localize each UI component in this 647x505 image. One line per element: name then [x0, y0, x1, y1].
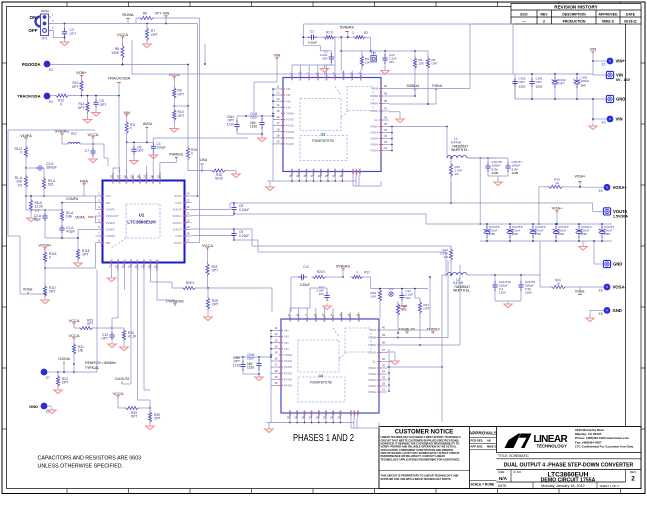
svg-text:UNLESS OTHERWISE SPECIFIED.: UNLESS OTHERWISE SPECIFIED.	[38, 464, 124, 470]
svg-text:GND: GND	[613, 262, 622, 267]
wire	[353, 177, 381, 187]
title block	[379, 427, 641, 489]
svg-text:VOSA-: VOSA-	[613, 285, 627, 290]
wire	[539, 241, 541, 287]
svg-text:TRK/SS2: TRK/SS2	[116, 258, 120, 270]
wire	[174, 105, 189, 107]
svg-text:ON: ON	[30, 15, 38, 20]
svg-text:OPT: OPT	[212, 269, 219, 273]
svg-text:OPT: OPT	[70, 32, 77, 36]
svg-text:VIN: VIN	[284, 335, 289, 339]
capacitor C3-A	[26, 162, 57, 178]
connector J5	[593, 208, 629, 219]
svg-text:10k: 10k	[78, 349, 84, 353]
wire	[290, 288, 333, 312]
svg-text:TRACK/SSA: TRACK/SSA	[17, 94, 40, 99]
wire VOUTA	[467, 158, 508, 225]
node VOSA+	[38, 242, 52, 250]
resistor R11	[125, 117, 136, 143]
svg-text:2: 2	[631, 476, 635, 483]
wire rail B2	[192, 235, 447, 277]
svg-text:LTC3860EUH: LTC3860EUH	[127, 220, 156, 225]
svg-text:R1 0: R1 0	[326, 31, 333, 35]
svg-text:VSWH: VSWH	[368, 366, 376, 370]
wire PGOODA	[51, 64, 189, 106]
svg-text:6V - 14V: 6V - 14V	[616, 78, 631, 82]
resistor R8-A	[27, 196, 44, 222]
svg-text:DISB#: DISB#	[368, 336, 376, 340]
svg-text:CAPACITORS AND RESISTORS ARE 0: CAPACITORS AND RESISTORS ARE 0603	[38, 456, 142, 462]
svg-text:DEMO CIRCUIT 1755A: DEMO CIRCUIT 1755A	[541, 478, 596, 484]
svg-text:FB2: FB2	[106, 241, 111, 245]
svg-text:Monday, January 16, 2012: Monday, January 16, 2012	[541, 484, 584, 488]
resistor R35	[146, 408, 161, 430]
svg-text:16V: 16V	[389, 60, 394, 64]
svg-text:PHSMD: PHSMD	[142, 259, 146, 269]
capacitor C8	[231, 203, 249, 214]
svg-text:N/A: N/A	[499, 476, 508, 481]
svg-text:PCB DES.: PCB DES.	[471, 439, 484, 443]
svg-text:1%: 1%	[35, 208, 40, 212]
svg-text:VIN: VIN	[284, 329, 289, 333]
svg-text:VSWH: VSWH	[368, 390, 376, 394]
power stage U3 FDMF6707B	[273, 70, 389, 178]
svg-text:PGND: PGND	[338, 410, 342, 418]
svg-text:OPT: OPT	[137, 149, 144, 153]
svg-text:OPT: OPT	[155, 12, 162, 16]
svg-text:10: 10	[556, 282, 560, 286]
wire VIN top	[254, 52, 280, 116]
svg-text:VIN: VIN	[284, 341, 289, 345]
svg-text:E4: E4	[49, 100, 53, 104]
svg-text:R20 0: R20 0	[317, 270, 326, 274]
svg-text:DATE:: DATE:	[498, 484, 507, 488]
node VIN right	[590, 46, 597, 75]
node ILINA	[199, 158, 208, 172]
svg-text:VIN: VIN	[284, 347, 289, 351]
node VOSA-	[20, 288, 46, 295]
wire rail A2	[192, 213, 427, 216]
svg-text:DISBL#1: DISBL#1	[407, 84, 420, 88]
wire U4 bottom bus	[265, 415, 354, 433]
svg-text:IL2M: IL2M	[176, 234, 183, 238]
capacitor C4	[149, 142, 165, 159]
svg-text:PWMEN2: PWMEN2	[155, 258, 159, 270]
svg-text:SNS2P: SNS2P	[173, 227, 182, 231]
capacitors COUT9 COUT10	[480, 274, 540, 307]
connector E8	[586, 307, 622, 322]
node COMPA	[61, 197, 95, 211]
node 5VBIAS	[340, 25, 354, 39]
svg-text:OPT: OPT	[212, 303, 219, 307]
inductor L1	[447, 137, 497, 159]
svg-text:E3: E3	[49, 68, 53, 72]
svg-text:VSWH: VSWH	[370, 143, 378, 147]
svg-text:3300pF: 3300pF	[46, 166, 57, 170]
svg-text:1210: 1210	[227, 122, 234, 126]
svg-text:VCCA: VCCA	[112, 391, 123, 396]
svg-text:1%: 1%	[444, 255, 449, 259]
svg-text:2.5V: 2.5V	[535, 232, 541, 236]
svg-text:VIN: VIN	[616, 117, 623, 122]
svg-text:16V: 16V	[581, 83, 587, 87]
resistor R3-A	[42, 176, 56, 197]
svg-text:10K: 10K	[371, 295, 376, 299]
svg-text:APPROVED: APPROVED	[598, 12, 618, 16]
svg-text:GH: GH	[307, 76, 311, 80]
svg-text:2: 2	[543, 19, 545, 23]
address block	[575, 428, 633, 449]
op-amp U1 LTC3860EUH	[96, 172, 192, 271]
svg-text:E6: E6	[599, 289, 603, 293]
connector E4 TRACKSSA	[17, 93, 53, 104]
svg-text:100pF: 100pF	[157, 146, 166, 150]
input capacitors CIN1 CIN2	[512, 73, 606, 100]
wire	[389, 103, 436, 105]
svg-text:DUAL OUTPUT 4 -PHASE STEP-DOWN: DUAL OUTPUT 4 -PHASE STEP-DOWN CONVERTER	[504, 462, 634, 468]
svg-text:5VBIAS: 5VBIAS	[340, 25, 354, 30]
svg-text:OPT: OPT	[178, 114, 185, 118]
svg-text:VIN: VIN	[616, 73, 623, 78]
svg-text:VSNEP: VSNEP	[106, 227, 115, 231]
svg-text:2.5V: 2.5V	[489, 232, 495, 236]
svg-text:PWMEN2: PWMEN2	[166, 298, 184, 303]
svg-text:68pF: 68pF	[34, 218, 41, 222]
capacitor C5	[92, 95, 106, 116]
svg-text:PGND: PGND	[297, 168, 301, 176]
resistor R3	[360, 54, 370, 70]
resistor R34	[118, 398, 151, 419]
svg-text:VCCA: VCCA	[87, 132, 98, 137]
svg-text:1: 1	[356, 271, 358, 275]
svg-text:GND: GND	[616, 97, 625, 102]
wire rail A1	[192, 202, 593, 211]
capacitor C11	[310, 285, 331, 310]
resistor R7	[143, 24, 158, 48]
svg-text:VCCA: VCCA	[202, 243, 213, 248]
svg-text:FSWITCH = 500kHz: FSWITCH = 500kHz	[85, 361, 116, 365]
svg-text:VSWH: VSWH	[370, 131, 378, 135]
resistor R4	[413, 51, 423, 96]
resistor R116	[43, 250, 56, 269]
svg-text:1210: 1210	[519, 84, 526, 88]
svg-text:VSWH: VSWH	[284, 353, 292, 357]
svg-text:2.5V: 2.5V	[512, 232, 518, 236]
wire left border loop	[8, 236, 20, 294]
svg-text:OPT: OPT	[49, 290, 56, 294]
svg-text:R17: R17	[71, 132, 77, 136]
inductor R17	[68, 132, 94, 145]
svg-text:IC NO.: IC NO.	[513, 470, 522, 474]
svg-text:IL1M: IL1M	[176, 201, 183, 205]
svg-text:E5: E5	[599, 189, 603, 193]
resistor R19	[538, 178, 604, 225]
svg-text:COND: COND	[370, 109, 378, 113]
svg-text:R2: R2	[364, 31, 368, 35]
svg-text:PGND: PGND	[284, 359, 292, 363]
svg-text:VIN: VIN	[590, 46, 597, 51]
wire VSWH A	[389, 126, 448, 158]
svg-text:0: 0	[130, 127, 132, 131]
wire	[426, 182, 451, 224]
svg-text:CLKOUT: CLKOUT	[136, 259, 140, 270]
svg-text:VSNSOUT: VSNSOUT	[106, 214, 119, 218]
wire vin feed	[513, 24, 515, 74]
svg-text:10K: 10K	[365, 61, 370, 65]
svg-text:FREQ: FREQ	[123, 259, 127, 266]
svg-text:RUN2: RUN2	[174, 241, 182, 245]
revision history table	[511, 4, 641, 25]
wire	[93, 144, 108, 166]
resistor R13	[170, 106, 184, 132]
output capacitor bank COUT1-6	[426, 223, 615, 250]
svg-text:TECHNOLOGY: TECHNOLOGY	[537, 444, 567, 449]
resistor R24	[370, 288, 381, 318]
svg-text:PGND: PGND	[284, 377, 292, 381]
svg-text:VSWH: VSWH	[370, 149, 378, 153]
Linear Technology logo	[505, 434, 569, 449]
node DISBL#2	[397, 326, 416, 334]
svg-text:GND: GND	[29, 404, 38, 409]
capacitor C13	[101, 328, 116, 348]
wire	[389, 24, 470, 89]
wire RUN2	[166, 18, 200, 243]
node VOSA+r	[574, 175, 585, 188]
svg-text:16V: 16V	[406, 296, 411, 300]
svg-text:50.2k: 50.2k	[215, 177, 223, 181]
svg-text:PGND: PGND	[286, 130, 294, 134]
svg-text:2.5V: 2.5V	[581, 232, 587, 236]
resistor R8	[111, 39, 124, 65]
resistor R28	[204, 288, 219, 321]
svg-text:10K: 10K	[419, 62, 424, 66]
resistor R26	[396, 301, 407, 333]
wire FB node	[26, 195, 84, 197]
connector E2	[589, 99, 623, 130]
svg-text:2.5V: 2.5V	[558, 232, 564, 236]
testpoint TP2	[388, 287, 394, 296]
capacitor C7	[85, 148, 97, 163]
svg-text:OPT: OPT	[101, 337, 108, 341]
svg-text:OPT: OPT	[432, 62, 438, 66]
svg-text:APP ENG.: APP ENG.	[471, 445, 484, 449]
svg-text:PGND: PGND	[319, 168, 323, 176]
node PWMEN1	[160, 153, 184, 174]
svg-text:SMOD#: SMOD#	[340, 312, 344, 322]
svg-text:VIN: VIN	[286, 99, 291, 103]
svg-text:0.22uF: 0.22uF	[300, 283, 310, 287]
node VCCA3	[112, 391, 123, 398]
wire	[625, 24, 627, 426]
node FBA	[80, 178, 95, 202]
svg-text:1210: 1210	[536, 84, 543, 88]
wire U3 bottom bus	[266, 178, 356, 191]
capacitor C2-A	[34, 209, 48, 238]
resistor R31	[72, 340, 84, 365]
svg-text:PGND: PGND	[310, 410, 314, 418]
svg-text:E7: E7	[46, 376, 50, 380]
svg-text:DISBL#2: DISBL#2	[399, 326, 416, 331]
svg-text:PGND: PGND	[284, 371, 292, 375]
svg-text:CLKINA: CLKINA	[58, 357, 70, 361]
resistor R23	[206, 250, 218, 288]
resistor R1	[323, 31, 355, 39]
svg-text:PGND: PGND	[284, 365, 292, 369]
svg-text:0.22uF: 0.22uF	[239, 208, 249, 212]
connector E9 GND	[29, 403, 56, 414]
svg-text:22uF: 22uF	[247, 357, 254, 361]
svg-text:0: 0	[60, 102, 62, 106]
svg-text:PWMEN1: PWMEN1	[158, 172, 162, 184]
capacitors COUT7 COUT8	[479, 157, 522, 185]
svg-text:E8: E8	[599, 312, 603, 316]
svg-text:VDRV: VDRV	[288, 314, 292, 322]
svg-text:PWM: PWM	[369, 328, 376, 332]
svg-text:WURTH EL.: WURTH EL.	[453, 289, 471, 293]
svg-text:THWN: THWN	[370, 102, 378, 106]
note text	[38, 456, 142, 470]
svg-text:PGND: PGND	[312, 168, 316, 176]
wire PHSMD	[138, 270, 151, 409]
wire 5vbias railB	[371, 288, 428, 290]
svg-text:PGND: PGND	[333, 168, 337, 176]
svg-text:SGND: SGND	[131, 176, 135, 184]
node VCCA u1	[87, 132, 98, 148]
svg-text:PGND: PGND	[304, 168, 308, 176]
svg-text:ECO: ECO	[520, 12, 528, 16]
svg-text:VSWH: VSWH	[368, 378, 376, 382]
svg-text:R17: R17	[364, 271, 370, 275]
svg-text:PGND: PGND	[286, 142, 294, 146]
resistor R29	[74, 319, 113, 330]
node 5VBIAS B	[336, 263, 350, 278]
wire pin3	[95, 203, 97, 210]
connector E7	[41, 369, 59, 380]
svg-text:PGND: PGND	[290, 168, 294, 176]
svg-text:GND: GND	[110, 259, 114, 265]
svg-text:OPT: OPT	[78, 106, 85, 110]
resistor R15	[449, 158, 462, 203]
svg-text:1210: 1210	[247, 366, 254, 370]
wire	[49, 31, 65, 38]
svg-text:DATE: DATE	[626, 12, 636, 16]
svg-text:PGND: PGND	[324, 410, 328, 418]
svg-text:PGND: PGND	[357, 314, 361, 322]
svg-text:0: 0	[20, 151, 22, 155]
wire	[387, 265, 460, 346]
node VCCA2	[68, 333, 79, 340]
svg-text:SHEET 1 OF 3: SHEET 1 OF 3	[600, 484, 620, 488]
svg-text:WURTH EL.: WURTH EL.	[451, 148, 469, 152]
wire U4 VIN bus	[270, 330, 273, 415]
svg-text:E1: E1	[602, 63, 606, 67]
svg-text:5VBIAS: 5VBIAS	[55, 128, 69, 133]
svg-text:VSWH: VSWH	[368, 384, 376, 388]
svg-text:OPT: OPT	[100, 103, 107, 107]
svg-text:CUSTOMER NOTICE: CUSTOMER NOTICE	[395, 430, 454, 436]
capacitor C14	[381, 51, 397, 74]
node VCCA4	[202, 243, 213, 250]
svg-text:TYPICAL: TYPICAL	[85, 366, 99, 370]
wire big left loop	[8, 130, 95, 236]
svg-text:OPT: OPT	[131, 415, 138, 419]
svg-text:FDMF6707B: FDMF6707B	[310, 381, 332, 385]
capacitor C6	[130, 141, 144, 164]
wire VRNG1	[119, 167, 121, 174]
svg-text:473pF: 473pF	[66, 230, 75, 234]
svg-text:TRK/SS1: TRK/SS1	[111, 172, 115, 184]
svg-text:PWMEN1: PWMEN1	[169, 153, 183, 157]
svg-text:FBA: FBA	[80, 178, 88, 183]
svg-text:TP2: TP2	[388, 287, 394, 291]
svg-text:VOUTA: VOUTA	[613, 209, 627, 214]
svg-text:VOB+: VOB+	[76, 70, 87, 75]
wire rail74	[132, 40, 513, 74]
connector J1	[593, 71, 631, 82]
svg-text:DESCRIPTION: DESCRIPTION	[562, 12, 586, 16]
wire u1 top long1	[146, 166, 148, 174]
svg-text:5VBIAS: 5VBIAS	[336, 263, 350, 268]
svg-text:1206: 1206	[499, 291, 506, 295]
wire	[127, 142, 154, 173]
wire TRKSS1	[113, 168, 118, 174]
svg-text:VIN: VIN	[123, 110, 130, 115]
resistor R32	[54, 372, 69, 394]
svg-text:SNS1P: SNS1P	[173, 207, 182, 211]
wire top runb	[470, 23, 513, 25]
connector J4	[593, 240, 622, 268]
svg-text:PWM: PWM	[371, 87, 378, 91]
svg-text:VCIN: VCIN	[333, 74, 337, 80]
svg-text:PGND: PGND	[284, 384, 292, 388]
svg-text:IAVGA: IAVGA	[143, 122, 153, 126]
resistor R1-A	[15, 168, 28, 197]
svg-text:OPT: OPT	[151, 33, 158, 37]
svg-text:VIN: VIN	[286, 87, 291, 91]
svg-text:VRNG1: VRNG1	[118, 174, 122, 184]
node VDIFA2	[75, 215, 95, 222]
connector E6	[565, 284, 626, 293]
svg-text:U3: U3	[321, 133, 326, 137]
svg-text:PRODUCTION: PRODUCTION	[563, 19, 586, 23]
svg-text:SNS1N: SNS1N	[173, 214, 182, 218]
wire 5vbias rail	[341, 50, 428, 56]
resistor R12	[51, 94, 120, 106]
svg-text:PGND: PGND	[302, 410, 306, 418]
wire	[58, 270, 97, 373]
svg-text:TECHNOLOGY APPLICATIONS ENGINE: TECHNOLOGY APPLICATIONS ENGINEERING FOR …	[381, 457, 461, 461]
resistor R25	[151, 270, 273, 312]
svg-text:VOSN: VOSN	[348, 314, 352, 322]
svg-text:REV: REV	[630, 470, 636, 474]
svg-text:MIKE S.: MIKE S.	[487, 445, 497, 449]
svg-text:SMOD#: SMOD#	[342, 70, 346, 80]
wire sgnd	[125, 169, 127, 174]
svg-text:VOSA+: VOSA+	[613, 185, 628, 190]
svg-text:GL: GL	[372, 360, 376, 364]
node VOA+	[552, 205, 563, 225]
wire u1 top pwm1	[153, 138, 248, 174]
svg-text:FB1: FB1	[106, 201, 111, 205]
svg-text:COND: COND	[368, 351, 376, 355]
svg-text:OPT: OPT	[62, 381, 69, 385]
capacitor C2	[320, 50, 334, 73]
wire pwm2b	[386, 329, 388, 331]
node RUNA	[122, 12, 134, 24]
wire	[387, 276, 431, 330]
wire PGOOD2	[124, 270, 126, 291]
svg-text:REVISION HISTORY: REVISION HISTORY	[554, 5, 597, 10]
